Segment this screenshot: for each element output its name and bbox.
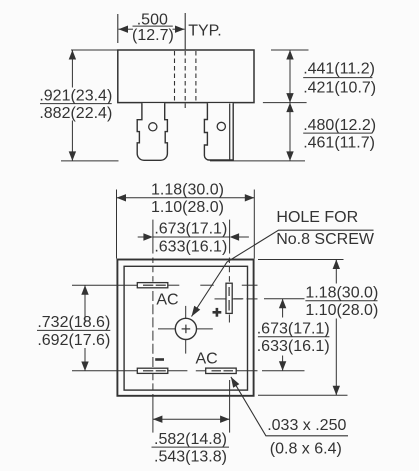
dim .441/.421 right — [286, 50, 376, 103]
svg-text:AC: AC — [156, 291, 178, 308]
svg-text:.732(18.6): .732(18.6) — [37, 314, 110, 331]
svg-text:.921(23.4): .921(23.4) — [39, 87, 112, 104]
svg-text:.461(11.7): .461(11.7) — [303, 135, 375, 152]
hole crosshair — [158, 306, 213, 354]
dim .480/.461 right — [286, 103, 376, 161]
dim .582/.543 bottom — [152, 416, 230, 466]
row centerline bottom — [72, 370, 258, 372]
svg-text:1.10(28.0): 1.10(28.0) — [305, 302, 378, 319]
dim .732/.692 left — [37, 285, 110, 371]
pin 2 (side view) — [204, 103, 233, 160]
svg-text:.480(12.2): .480(12.2) — [303, 117, 376, 134]
svg-text:.033 x .250: .033 x .250 — [267, 417, 346, 434]
dim .921/.882 left — [39, 50, 118, 161]
svg-text:1.18(30.0): 1.18(30.0) — [305, 285, 378, 302]
row centerline top (AC row) — [72, 284, 258, 286]
dim .673/.633 top — [138, 220, 249, 256]
svg-text:.500: .500 — [137, 11, 168, 28]
right extension lines — [210, 50, 309, 161]
svg-text:No.8 SCREW: No.8 SCREW — [276, 231, 375, 248]
label + — [213, 308, 222, 317]
label AC bottom — [195, 351, 217, 368]
label AC top — [156, 291, 178, 308]
dim 1.18/1.10 right — [258, 260, 378, 396]
case outer square — [117, 260, 253, 396]
svg-text:.673(17.1): .673(17.1) — [154, 221, 227, 238]
svg-text:.673(17.1): .673(17.1) — [257, 321, 330, 338]
label TYP. — [188, 23, 222, 40]
svg-text:.692(17.6): .692(17.6) — [37, 332, 110, 349]
svg-text:1.10(28.0): 1.10(28.0) — [151, 199, 224, 216]
label .033 x .250 with leader — [228, 375, 348, 457]
svg-text:HOLE FOR: HOLE FOR — [276, 209, 358, 226]
terminal AC bottom-right — [206, 368, 237, 373]
case inner square — [124, 266, 247, 390]
terminal + right (vertical) — [226, 283, 232, 313]
dim 1.18/1.10 top — [117, 182, 255, 259]
svg-text:.633(16.1): .633(16.1) — [154, 238, 227, 255]
column centerline right — [228, 258, 230, 433]
svg-text:(0.8 x 6.4): (0.8 x 6.4) — [270, 441, 342, 458]
svg-text:.441(11.2): .441(11.2) — [303, 60, 375, 77]
svg-text:.543(13.8): .543(13.8) — [154, 449, 227, 466]
pin 1 (front view) — [137, 103, 167, 160]
body outline (side view) — [118, 50, 254, 103]
svg-text:AC: AC — [195, 351, 217, 368]
mounting hole circle — [175, 318, 196, 339]
svg-text:1.18(30.0): 1.18(30.0) — [151, 182, 224, 199]
svg-text:(12.7): (12.7) — [132, 27, 174, 44]
terminal AC top-left — [137, 283, 168, 288]
svg-text:.882(22.4): .882(22.4) — [39, 105, 112, 122]
center extension line — [184, 13, 186, 49]
row centerline right slot — [215, 298, 258, 300]
dim .500 (12.7) — [119, 11, 185, 44]
svg-text:.421(10.7): .421(10.7) — [303, 79, 376, 96]
left extension line of .500 — [117, 14, 119, 43]
svg-text:.633(16.1): .633(16.1) — [257, 338, 330, 355]
label - — [155, 358, 164, 361]
hidden hole dashed lines — [175, 51, 196, 109]
column centerline left — [152, 258, 154, 433]
label HOLE FOR / No.8 SCREW with leader — [188, 209, 374, 318]
svg-text:.582(14.8): .582(14.8) — [154, 431, 227, 448]
dim .673/.633 right — [234, 299, 330, 371]
terminal - bottom-left — [137, 368, 168, 373]
svg-text:TYP.: TYP. — [188, 23, 222, 40]
